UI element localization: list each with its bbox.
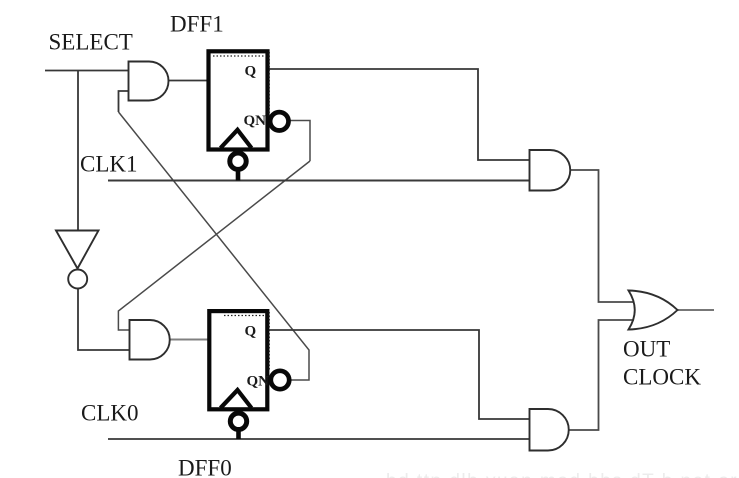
inverter U1 triangle — [56, 231, 99, 269]
or-gate OR1 — [629, 291, 678, 330]
and-gate AND3 bottom-right — [530, 409, 569, 451]
wire inverter output to AND0 — [78, 289, 130, 351]
DFF0 QN bubble — [271, 371, 289, 389]
DFF0 clock bubble — [230, 413, 246, 429]
svg-text:OUT: OUT — [623, 337, 670, 362]
DFF0 dotted top edge — [224, 315, 266, 317]
wire AND1 lower input bend — [119, 91, 129, 112]
flip-flop DFF0 box — [209, 311, 267, 409]
wire DFF1 Q to AND2 — [267, 69, 530, 160]
wire diagonal DFF0.QN to AND1 — [119, 112, 310, 380]
flip-flop DFF1 box — [209, 51, 268, 149]
DFF0 clock triangle — [221, 390, 252, 408]
inverter U1 bubble — [68, 270, 87, 289]
svg-text:CLK0: CLK0 — [81, 401, 139, 426]
svg-text:bd ttp dlb yuan mod bbs dT b n: bd ttp dlb yuan mod bbs dT b net org buy — [386, 471, 739, 478]
DFF1 clock stub — [236, 169, 241, 181]
wire CLK0 line — [108, 438, 530, 440]
DFF1 dotted right edge — [268, 52, 270, 117]
wire AND3 output to OR — [569, 320, 635, 430]
wire AND1 output to DFF1 D — [169, 80, 209, 82]
wire AND0 output to DFF0 D — [170, 339, 210, 341]
wire DFF0 Q to AND3 — [267, 330, 530, 419]
DFF0 dotted right edge — [268, 312, 270, 371]
svg-text:CLOCK: CLOCK — [623, 365, 701, 390]
and-gate AND1 top-left — [129, 62, 169, 101]
DFF1 clock triangle — [221, 130, 252, 148]
DFF0 clock stub — [236, 429, 241, 439]
DFF1 QN bubble — [270, 112, 288, 130]
wire AND2 output to OR — [570, 170, 634, 302]
svg-text:DFF0: DFF0 — [178, 456, 232, 478]
svg-text:QN: QN — [244, 113, 267, 129]
svg-text:DFF1: DFF1 — [170, 12, 224, 37]
svg-text:Q: Q — [245, 324, 257, 340]
wire OR output — [677, 309, 714, 311]
and-gate AND2 top-right — [530, 150, 571, 191]
DFF1 clock bubble — [230, 153, 246, 169]
and-gate AND0 bottom-left — [130, 320, 170, 360]
wire CLK1 line — [108, 180, 530, 182]
svg-text:SELECT: SELECT — [49, 30, 133, 55]
svg-text:Q: Q — [245, 64, 257, 80]
wire SELECT horizontal — [45, 70, 129, 72]
wire DFF1 QN lead — [288, 121, 310, 162]
svg-text:QN: QN — [247, 374, 270, 390]
wire diagonal DFF1.QN to AND0 — [118, 161, 310, 330]
wire SELECT vertical to inverter — [77, 71, 79, 231]
svg-text:CLK1: CLK1 — [80, 152, 138, 177]
DFF1 dotted top edge — [213, 55, 266, 57]
